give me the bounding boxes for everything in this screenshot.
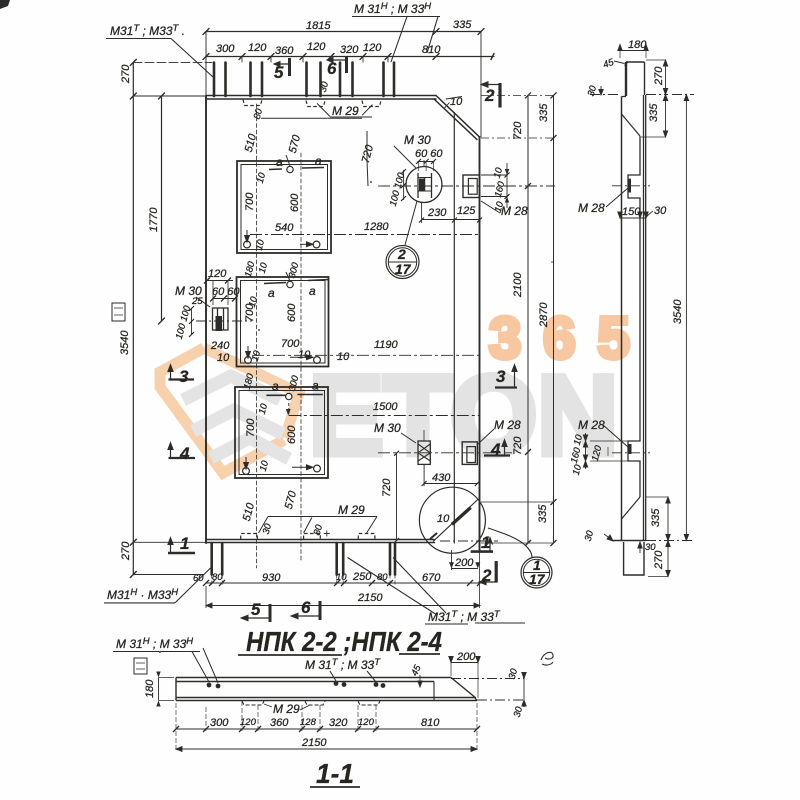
svg-text:60: 60 [193, 573, 204, 584]
svg-text:1500: 1500 [373, 401, 398, 413]
svg-text:335: 335 [537, 504, 549, 523]
svg-text:335: 335 [538, 103, 550, 122]
svg-text:120: 120 [248, 42, 267, 54]
side view bottom edge [612, 540, 646, 542]
top anchor bars [214, 63, 226, 97]
bottom edge extension left [133, 541, 206, 543]
svg-text:3540: 3540 [672, 299, 684, 324]
svg-text:1190: 1190 [374, 339, 399, 351]
svg-text:335: 335 [650, 508, 662, 527]
panel top edge double line [206, 96, 436, 100]
svg-text:а: а [309, 284, 316, 298]
section mark 5 bottom [241, 604, 270, 622]
right dim chain 335/2870/335 [481, 92, 557, 546]
1280 dim line [250, 234, 479, 236]
svg-text:320: 320 [340, 44, 359, 56]
svg-text:10: 10 [437, 513, 450, 525]
svg-text:а: а [276, 155, 283, 169]
svg-text:365: 365 [489, 306, 652, 371]
svg-text:270: 270 [120, 64, 132, 84]
opening 3 [235, 387, 328, 478]
svg-text:600: 600 [286, 425, 298, 444]
svg-text:180: 180 [144, 679, 156, 698]
section mark 3 left [168, 365, 194, 380]
side view M28 plate lower [628, 444, 632, 454]
svg-text:М 28: М 28 [578, 418, 605, 432]
dim row 1815/335 line [206, 31, 481, 33]
svg-text:М 30: М 30 [374, 421, 401, 435]
svg-text:а: а [315, 154, 322, 168]
interior vertical edge line [453, 113, 455, 544]
svg-text:930: 930 [262, 572, 281, 584]
svg-text:700: 700 [244, 192, 256, 211]
svg-text:125: 125 [457, 205, 476, 217]
M28 top dims 10 160 10 [481, 163, 510, 208]
section mark 4 left [168, 443, 195, 459]
svg-text:а: а [312, 379, 319, 393]
svg-text:М31Т ; М 33Т: М31Т ; М 33Т [428, 609, 501, 624]
svg-text:720: 720 [512, 436, 524, 455]
left dim chain line 270/3540/270 [132, 62, 134, 574]
svg-text:а: а [268, 286, 275, 300]
opening 2 top rebar circle [287, 281, 293, 287]
svg-text:120: 120 [358, 717, 375, 728]
svg-text:17: 17 [395, 261, 412, 277]
svg-text:80: 80 [212, 572, 223, 583]
callout circle 2/17 [386, 201, 419, 279]
M28 top anchor [463, 175, 480, 198]
side view bottom leg [624, 542, 644, 575]
svg-text:720: 720 [512, 121, 524, 140]
side view step ledge [622, 96, 627, 98]
svg-text:2870: 2870 [538, 302, 550, 328]
opening 1 bottom-left rebar circle [244, 241, 251, 248]
side view bottom chamfer diagonal [622, 497, 641, 519]
svg-text:3: 3 [179, 367, 189, 386]
svg-text:1-1: 1-1 [316, 758, 354, 789]
svg-text:2150: 2150 [357, 592, 383, 604]
svg-text:М 29: М 29 [332, 104, 359, 118]
side view M28 plate upper [628, 179, 632, 193]
tolerance box top [112, 303, 125, 321]
svg-text:2150: 2150 [301, 737, 327, 749]
detail circle bottom [419, 487, 485, 553]
svg-text:2: 2 [397, 246, 406, 262]
svg-text:5: 5 [274, 63, 284, 82]
section mark 1 left [168, 538, 195, 554]
svg-text:430: 430 [432, 472, 451, 484]
svg-text:720: 720 [381, 478, 393, 497]
panel right edge [479, 137, 481, 552]
svg-text:6: 6 [327, 59, 337, 78]
svg-text:600: 600 [286, 303, 298, 322]
opening 1 dim arrows [245, 155, 313, 247]
M28 bottom anchor [462, 442, 477, 465]
watermark logo chevrons [160, 348, 299, 473]
tolerance box section [134, 658, 147, 674]
svg-text:320: 320 [329, 717, 348, 729]
svg-text:30: 30 [645, 542, 656, 553]
side view inner line with M28 notches [628, 136, 640, 497]
svg-text:М 29: М 29 [338, 503, 365, 517]
vertical dashed line x301 [300, 153, 302, 560]
svg-text:М 31Н ; М 33Н: М 31Н ; М 33Н [116, 636, 193, 651]
section dim row [173, 701, 480, 732]
section mark 3 right [495, 365, 517, 388]
svg-text:60 60: 60 60 [415, 148, 443, 160]
svg-text:360: 360 [270, 717, 289, 729]
svg-text:335: 335 [648, 103, 660, 122]
opening 3 dim arrows [244, 457, 313, 470]
svg-text:300: 300 [210, 717, 229, 729]
side view left edge [621, 97, 623, 541]
svg-text:240: 240 [210, 340, 230, 352]
section mark 6 bottom [291, 601, 320, 620]
svg-text:10: 10 [217, 352, 230, 364]
svg-text:1280: 1280 [364, 221, 389, 233]
opening 2 bottom-left rebar circle [245, 357, 252, 364]
svg-text:10: 10 [336, 572, 347, 583]
svg-text:128: 128 [300, 717, 317, 728]
svg-text:810: 810 [421, 717, 440, 729]
svg-text:3540: 3540 [119, 330, 131, 355]
1770 dim line [161, 96, 163, 321]
slab outline [176, 678, 477, 701]
M29 bottom channel dashes [241, 534, 375, 540]
dim row 300/120/360/120/320/120/810 line [206, 56, 494, 58]
svg-text:30: 30 [654, 205, 667, 217]
reference line bar tops dashed [133, 61, 212, 63]
lower anchors centerline y452.8 [378, 452, 512, 454]
svg-text:120: 120 [208, 268, 227, 280]
svg-text:2: 2 [481, 566, 492, 585]
opening 3 top rebar circle [286, 393, 292, 399]
svg-text:1770: 1770 [148, 207, 160, 232]
svg-text:6: 6 [301, 598, 311, 617]
svg-text:10: 10 [337, 351, 350, 363]
panel top-right chamfer [434, 96, 480, 140]
side view top chamfer diagonal [622, 114, 641, 136]
slab anchor dots [207, 681, 386, 688]
svg-text:М 30: М 30 [404, 133, 431, 147]
svg-text:810: 810 [422, 44, 441, 56]
svg-text:700: 700 [245, 418, 257, 437]
side view right edge double [644, 95, 646, 540]
svg-text:120: 120 [240, 717, 257, 728]
svg-text:700: 700 [244, 303, 256, 322]
svg-text:300: 300 [216, 43, 235, 55]
side view top column [625, 62, 645, 96]
section mark 2 bottom [479, 561, 497, 585]
svg-text:270: 270 [653, 66, 665, 86]
svg-text:1: 1 [481, 533, 490, 552]
svg-text:2100: 2100 [512, 272, 524, 298]
svg-text:1815: 1815 [306, 20, 331, 32]
svg-text:3: 3 [496, 367, 506, 386]
section dim 2150 [176, 703, 477, 752]
right dim chain 720/2100/720 [525, 92, 531, 546]
opening 3 mid arrow tick [288, 403, 290, 414]
opening 3 bottom-left rebar circle [243, 468, 250, 475]
svg-text:270: 270 [120, 541, 132, 561]
panel bottom edge double line [206, 540, 435, 543]
top edge extension to left [133, 95, 206, 97]
svg-text:М 28: М 28 [494, 418, 521, 432]
opening 3 bottom-right rebar circle [314, 465, 321, 472]
svg-text:М 29: М 29 [273, 702, 300, 716]
svg-text:1: 1 [180, 534, 189, 553]
svg-text:360: 360 [275, 45, 294, 57]
opening 2 [237, 277, 329, 367]
svg-text:а: а [272, 379, 279, 393]
svg-text:НПК 2-2 ;НПК 2-4: НПК 2-2 ;НПК 2-4 [246, 626, 442, 657]
M29 section channel dashes [242, 701, 380, 705]
svg-text:120: 120 [363, 42, 382, 54]
opening 1 [237, 161, 331, 253]
side view dash-dot reference lines [590, 95, 694, 541]
svg-text:4: 4 [490, 440, 501, 459]
svg-text:540: 540 [275, 222, 294, 234]
section mark 2 top [481, 82, 500, 108]
bottom dim row B 2150 [206, 552, 480, 608]
opening 2 bottom-right rebar circle [314, 357, 321, 364]
svg-text:600: 600 [289, 193, 301, 212]
scan corner mark [0, 0, 10, 9]
dash-dot through detail circle [440, 540, 498, 542]
section end dash-dot lines [451, 672, 526, 707]
M30 top anchor circle [406, 160, 442, 203]
svg-text:М31Н · М33Н: М31Н · М33Н [107, 587, 178, 602]
svg-text:М 31Т ; М 33Т: М 31Т ; М 33Т [305, 657, 381, 672]
callout circle 1/17 [488, 528, 552, 588]
section mark 1 right [471, 538, 493, 552]
section mark 6 top [327, 56, 347, 73]
panel left edge [205, 96, 207, 543]
section mark 4 right [484, 440, 510, 456]
squiggle mark [541, 652, 553, 665]
opening 1 top rebar circle [287, 166, 293, 172]
1500 dim line [289, 415, 479, 417]
svg-text:670: 670 [422, 572, 441, 584]
M30 bottom anchor [418, 430, 430, 464]
bottom dim row A [203, 575, 483, 587]
svg-text:5: 5 [251, 600, 261, 619]
bottom bars reference line [133, 574, 204, 576]
svg-text:230: 230 [427, 207, 447, 219]
svg-text:17: 17 [529, 571, 546, 587]
section mark 5 top [274, 58, 290, 76]
anchors centerline y186 [378, 185, 555, 187]
svg-text:200: 200 [456, 651, 476, 663]
svg-text:250: 250 [352, 571, 372, 583]
M30 left centerline [196, 320, 252, 322]
opening 2 dim arrows [246, 272, 313, 360]
M29 top channel dashes [243, 100, 381, 107]
svg-text:М 28: М 28 [578, 201, 605, 215]
opening 1 bottom-right rebar circle [313, 241, 320, 248]
svg-text:335: 335 [453, 19, 472, 31]
svg-text:200: 200 [454, 557, 474, 569]
svg-text:4: 4 [179, 444, 190, 463]
vertical extension line x256 dotted [256, 104, 258, 568]
svg-text:120: 120 [307, 41, 326, 53]
svg-text:М 31Н ; М 33Н: М 31Н ; М 33Н [354, 1, 431, 16]
M30 left anchor body [213, 308, 229, 331]
svg-text:25: 25 [191, 296, 203, 307]
bottom anchor bars [212, 543, 223, 575]
1190 dim line [252, 354, 479, 356]
